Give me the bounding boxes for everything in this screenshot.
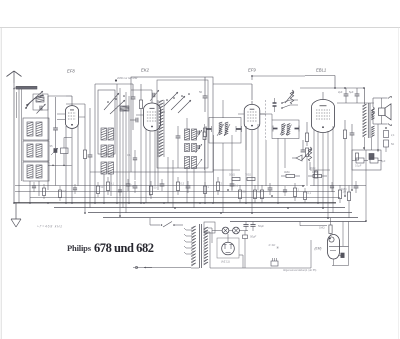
wire xyxy=(231,135,233,190)
wire xyxy=(116,84,118,203)
cathode cap C12 xyxy=(350,132,355,134)
cap C18 xyxy=(273,102,277,104)
capacitor Cr1 xyxy=(126,183,131,185)
shield box osc outer xyxy=(131,77,213,172)
output transformer primary xyxy=(363,104,367,107)
capacitor Cs0 xyxy=(32,185,36,187)
capacitor Cs7 xyxy=(283,189,287,191)
page right edge xyxy=(398,28,400,339)
svg-text:EF9: EF9 xyxy=(248,68,256,73)
resistor Rr0 xyxy=(106,182,109,191)
wire xyxy=(94,92,96,203)
wire xyxy=(119,88,121,216)
grid resistor R17 xyxy=(329,225,332,234)
svg-text:0,1µF: 0,1µF xyxy=(355,165,362,168)
antenna xyxy=(7,71,15,77)
wire xyxy=(284,139,286,169)
wire top EBL1 xyxy=(305,75,335,77)
svg-text:EK2: EK2 xyxy=(141,68,150,73)
cap C11 xyxy=(301,149,306,151)
resistor Rr14 xyxy=(338,190,341,199)
mech link dashed xyxy=(265,100,267,140)
speaker field winding xyxy=(372,107,375,116)
volume pot P1 xyxy=(308,147,311,161)
wire ground bus xyxy=(14,202,336,204)
capacitor Cr12 xyxy=(268,187,273,189)
coil L10 xyxy=(120,106,129,111)
tone box xyxy=(352,150,381,170)
svg-text:Philips: Philips xyxy=(67,243,92,253)
wire top EF9 xyxy=(252,75,305,77)
wire Bplus bus xyxy=(30,197,340,199)
speaker LS xyxy=(379,108,386,116)
capacitor Cs9 xyxy=(330,185,334,187)
svg-text:4µF: 4µF xyxy=(381,160,386,163)
mains switch S2 xyxy=(150,224,160,226)
wire xyxy=(227,238,229,242)
field coil xyxy=(385,124,387,130)
resistor R4 xyxy=(203,132,206,140)
coil L4 xyxy=(27,144,33,157)
wire bus4 xyxy=(103,217,358,219)
output transformer core xyxy=(367,103,369,138)
tuning gang C1a xyxy=(39,106,41,111)
resistor Rr13 xyxy=(293,188,296,197)
wire xyxy=(128,96,130,203)
resistor R12 xyxy=(347,192,350,201)
resistor R2 xyxy=(83,150,86,159)
coil L6 xyxy=(27,165,33,178)
coil L3 xyxy=(36,122,42,136)
filter cap C16 xyxy=(250,224,255,226)
wire xyxy=(157,131,159,190)
wire xyxy=(212,230,222,232)
coil L2 xyxy=(27,122,33,136)
coil L7 xyxy=(36,165,42,178)
svg-text:≋ 3Ω: ≋ 3Ω xyxy=(268,243,276,247)
mains lead xyxy=(136,267,191,269)
wire xyxy=(145,129,147,203)
cap C6 xyxy=(135,118,137,123)
capacitor Cs3 xyxy=(73,187,77,189)
svg-text:≈Γ=468 kHz: ≈Γ=468 kHz xyxy=(37,225,62,229)
output block X1 xyxy=(271,261,278,266)
trimmer C3 xyxy=(54,149,57,153)
wire xyxy=(322,133,324,208)
wire grid V3 xyxy=(251,84,253,100)
capacitor Cr15 xyxy=(354,185,359,187)
wire xyxy=(95,83,133,85)
trimmer C8b xyxy=(196,159,203,168)
wire side leads V2 xyxy=(136,114,143,116)
trimmer C7 xyxy=(197,131,199,135)
svg-text:EF8: EF8 xyxy=(67,69,75,74)
wire side leads V3 xyxy=(238,113,244,115)
wire xyxy=(317,131,319,203)
wire xyxy=(77,124,79,186)
tube V2 EK2 xyxy=(144,103,161,131)
wire xyxy=(377,124,379,152)
trimmer C8 xyxy=(197,145,199,149)
IF2 coil Lb xyxy=(287,124,290,126)
wire xyxy=(125,92,127,213)
coil L8 xyxy=(101,128,107,140)
output transformer secondary xyxy=(371,109,374,111)
resistor R1 xyxy=(61,148,69,154)
wire xyxy=(14,87,37,89)
IF1 coil Lb xyxy=(225,122,228,124)
junction dots xyxy=(13,202,15,204)
cathode resistor R10 xyxy=(343,130,346,139)
wire xyxy=(371,137,373,150)
coil L9 xyxy=(101,145,107,157)
osc coil L14 xyxy=(192,144,197,152)
coil box K3 xyxy=(23,162,49,181)
svg-text:0,1: 0,1 xyxy=(111,182,115,186)
wire AVC bus xyxy=(15,185,305,187)
wire xyxy=(71,129,73,204)
IF2 cap Ca xyxy=(273,128,278,130)
filter cap C15 xyxy=(243,224,248,226)
wire xyxy=(251,130,253,214)
coil box K2 xyxy=(23,141,49,161)
wire xyxy=(342,222,344,247)
wire xyxy=(103,174,105,203)
svg-text:1MΩ: 1MΩ xyxy=(310,167,315,170)
band switch S1c xyxy=(164,92,178,106)
resistor R15 xyxy=(370,158,378,163)
wire mid link xyxy=(90,171,131,173)
svg-text:2µF: 2µF xyxy=(338,90,343,94)
resistor Rs1 xyxy=(43,188,46,196)
svg-text:0,1: 0,1 xyxy=(308,192,312,195)
IF1 coil La xyxy=(219,122,222,124)
switch box S1a xyxy=(33,94,48,110)
wire xyxy=(122,111,124,208)
wire xyxy=(167,157,169,203)
rectifier box xyxy=(217,238,239,258)
tuning gang C1b xyxy=(152,93,154,97)
padding cap C2 xyxy=(53,127,58,129)
resistor R5 xyxy=(203,128,206,137)
resistor Rs4 xyxy=(97,186,100,194)
resistor Rr9 xyxy=(238,190,241,199)
osc coil L16 xyxy=(192,157,197,169)
ground xyxy=(15,203,17,219)
wire xyxy=(47,96,49,190)
osc coil L12 xyxy=(192,129,197,140)
svg-text:Allgemeinverstärkerpl. (ab 55): Allgemeinverstärkerpl. (ab 55) xyxy=(283,269,317,272)
capacitor Cr4 xyxy=(160,183,165,185)
grid resistor R8 xyxy=(305,133,308,142)
transformer taps xyxy=(186,229,192,231)
svg-text:5Ω: 5Ω xyxy=(391,143,394,146)
wire xyxy=(277,138,279,203)
wire AF xyxy=(309,162,311,170)
wire xyxy=(242,255,244,268)
IF2 cap Cb xyxy=(295,128,300,130)
tone cap C14 xyxy=(355,93,360,95)
tone cap C13 xyxy=(344,93,349,95)
svg-text:EBL1: EBL1 xyxy=(316,68,326,73)
wire heater lead xyxy=(191,267,199,269)
capacitor Cr2 xyxy=(133,185,138,187)
page top edge xyxy=(0,27,400,29)
cap C10 xyxy=(203,95,208,97)
wire xyxy=(390,104,392,120)
capacitor Cr8 xyxy=(230,183,235,185)
resistor Rr7 xyxy=(216,182,219,191)
svg-text:700Ω: 700Ω xyxy=(245,174,251,177)
wire xyxy=(65,126,67,203)
wire bus2 xyxy=(54,207,345,209)
IF1 box xyxy=(209,118,241,144)
tube V6 EM1 xyxy=(328,235,340,260)
resistor R7 xyxy=(313,174,322,177)
svg-text:4MΩ: 4MΩ xyxy=(284,170,290,174)
wire xyxy=(186,118,188,129)
wire xyxy=(332,126,334,213)
wire screen bus xyxy=(15,191,335,193)
resistor row det a xyxy=(232,178,240,181)
wire xyxy=(209,232,211,268)
svg-text:1MΩ: 1MΩ xyxy=(319,226,325,230)
AVC pot P2 xyxy=(290,90,293,104)
shield box stage2 xyxy=(98,90,115,154)
svg-text:(EM): (EM) xyxy=(315,247,322,251)
band switch S1a xyxy=(27,91,43,105)
switch S3 xyxy=(282,100,290,103)
resistor Rr3 xyxy=(149,186,152,195)
wire xyxy=(265,140,267,186)
svg-text:35: 35 xyxy=(50,144,53,148)
resistor R14 xyxy=(356,158,364,163)
power transformer core xyxy=(199,224,201,268)
osc coil L11 xyxy=(185,129,190,140)
wire xyxy=(364,88,366,104)
capacitor Cs5 xyxy=(118,189,122,191)
resistor R6 xyxy=(286,174,295,177)
IF2 box xyxy=(272,120,299,139)
IF1 cap Ca xyxy=(206,128,212,130)
resistor Rr10 xyxy=(253,190,256,199)
coil box K1 xyxy=(23,118,49,140)
svg-text:2MΩ nur bei MW: 2MΩ nur bei MW xyxy=(116,76,138,80)
osc coil L13 xyxy=(185,144,190,152)
dial lamp LA1 xyxy=(222,227,229,234)
coil L1b xyxy=(36,97,44,102)
wire bottom rail xyxy=(210,267,311,269)
cap C4 xyxy=(88,154,93,156)
osc coil shield xyxy=(159,100,164,103)
resistor row det b xyxy=(247,178,255,181)
wire xyxy=(245,126,247,150)
svg-text:5µ: 5µ xyxy=(131,184,134,188)
wire xyxy=(71,138,73,166)
tube V4 EBL1 xyxy=(311,100,334,133)
band switch S1b xyxy=(104,93,119,110)
wire xyxy=(257,124,259,190)
grid resistor R9 xyxy=(305,148,308,157)
coil L9b xyxy=(101,162,107,174)
resistor Rs6 xyxy=(204,186,207,194)
wire xyxy=(222,143,224,213)
wire bus3 xyxy=(88,212,352,214)
wire bus5 xyxy=(230,221,366,223)
rectifier tube V5 AZ11 xyxy=(222,242,235,255)
wire xyxy=(300,87,364,89)
capacitor Cr6 xyxy=(186,185,191,187)
coil L1 xyxy=(16,86,37,89)
wire xyxy=(16,92,18,118)
svg-text:0,5: 0,5 xyxy=(63,190,67,193)
detector diode D1 xyxy=(296,155,302,161)
wire xyxy=(213,135,215,203)
wire xyxy=(18,89,20,203)
svg-text:1MΩ: 1MΩ xyxy=(341,187,347,191)
resistor R3 xyxy=(139,100,142,109)
wire xyxy=(245,126,247,203)
svg-text:50kΩ: 50kΩ xyxy=(229,174,235,177)
voltage selector box xyxy=(204,222,215,233)
speaker clip a xyxy=(388,96,392,98)
resistor Rs8 xyxy=(304,192,307,200)
EM1 grid cap xyxy=(341,253,344,258)
svg-text:5µF: 5µF xyxy=(349,90,354,94)
wire side leads V1 xyxy=(57,113,65,115)
svg-text:0,1: 0,1 xyxy=(235,184,239,188)
wire xyxy=(300,225,327,227)
dial lamp LA2 xyxy=(233,227,240,234)
wire xyxy=(29,181,31,203)
wire xyxy=(208,227,212,229)
svg-text:(AZ 11): (AZ 11) xyxy=(221,260,230,264)
shield box osc inner xyxy=(157,80,208,168)
tube V1 EF8 xyxy=(65,106,78,129)
wire xyxy=(337,102,374,104)
page left edge xyxy=(0,28,2,339)
IF2 coil La xyxy=(281,124,284,126)
wire grid V2 xyxy=(151,90,153,100)
wire xyxy=(364,137,366,150)
svg-text:0,3: 0,3 xyxy=(181,182,185,186)
resistor Rr5 xyxy=(176,182,179,191)
wire xyxy=(333,259,335,266)
wire right link xyxy=(310,185,366,187)
electrolytic C17 xyxy=(243,235,248,239)
svg-text:0,1: 0,1 xyxy=(127,154,131,157)
wire xyxy=(154,130,156,186)
svg-text:678 und 682: 678 und 682 xyxy=(94,241,154,255)
resistor R16 xyxy=(315,171,318,178)
wire EF9 anode link xyxy=(260,113,272,115)
cap 01uF osc xyxy=(133,157,137,159)
svg-text:50µF: 50µF xyxy=(258,224,264,228)
padder C9 xyxy=(176,135,181,137)
svg-text:50µF: 50µF xyxy=(250,235,257,239)
IF1 cap Cb xyxy=(236,128,242,130)
wire xyxy=(313,129,315,186)
wire xyxy=(348,222,350,266)
wire grid V1 xyxy=(71,96,73,102)
osc coil L15 xyxy=(185,157,190,169)
power transformer secondary xyxy=(204,227,208,230)
wire xyxy=(327,131,329,218)
speaker clip b xyxy=(388,124,392,126)
wire xyxy=(149,131,151,197)
coil L5 xyxy=(36,144,42,157)
resistor Rs2 xyxy=(59,190,62,198)
tube V3 EF9 xyxy=(244,104,260,129)
svg-text:50: 50 xyxy=(199,90,203,94)
power transformer primary xyxy=(191,226,195,229)
cap C5 xyxy=(131,96,136,98)
resistor Rr11 xyxy=(260,190,263,199)
wire mid link2 xyxy=(213,169,240,171)
